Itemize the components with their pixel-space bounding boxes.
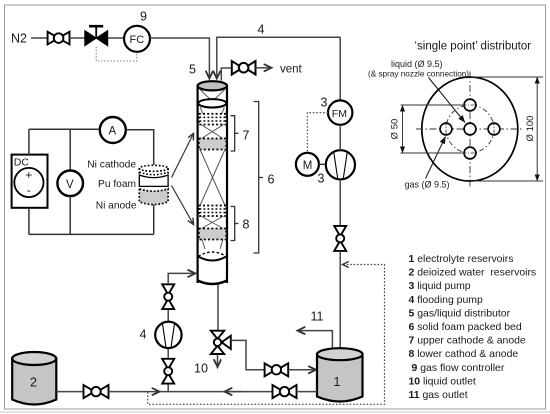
nozzle hole bottom: [464, 147, 476, 159]
nozzle hole top: [464, 99, 476, 111]
wire FC to column top (gas feed): [150, 38, 209, 79]
wire tank2 outlet: [56, 391, 83, 393]
svg-text:‘single point’ distributor: ‘single point’ distributor: [415, 40, 532, 52]
svg-text:gas (Ø 9.5): gas (Ø 9.5): [405, 179, 450, 189]
spray cone: [200, 89, 212, 100]
page edge shadow: [0, 411, 550, 413]
valve V1 (ball valve on N2 line): [48, 32, 70, 45]
svg-text:6: 6: [268, 173, 275, 187]
svg-text:M: M: [303, 160, 313, 172]
svg-text:4 flooding pump: 4 flooding pump: [409, 295, 483, 306]
svg-text:FM: FM: [332, 108, 347, 120]
centerline vertical (dash-dot): [469, 72, 471, 189]
svg-text:9 gas flow controller: 9 gas flow controller: [412, 363, 505, 374]
valve V7 (tank2 outlet): [84, 385, 109, 398]
bracket 8: [231, 207, 235, 241]
wire valve V1 to valve V2: [70, 37, 85, 39]
taper wires: [200, 107, 203, 114]
wire voltmeter riser: [69, 129, 71, 170]
cross wires: [201, 216, 223, 229]
DC power supply box: [12, 155, 48, 208]
svg-text:11 gas outlet: 11 gas outlet: [409, 390, 468, 401]
centerline horizontal (dash-dot): [416, 128, 522, 130]
wire M to pump: [319, 163, 326, 165]
Ni cathode band (dotted): [139, 165, 168, 171]
bracket 6: [254, 102, 259, 254]
instrument FC (gas flow controller): [124, 26, 150, 52]
svg-text:DC: DC: [14, 157, 30, 169]
wire DC top riser: [28, 129, 30, 154]
wire to vent with arrow: [256, 67, 272, 69]
dimension D50: [401, 105, 465, 153]
leader arrow gas: [426, 137, 446, 179]
instrument FM (flow meter): [328, 100, 352, 124]
svg-text:N2: N2: [11, 32, 27, 46]
wire 3-way valve to tank 1: [231, 340, 265, 369]
wire N2 to valve V1: [31, 37, 48, 39]
electrode band (upper cathode, dotted): [199, 114, 226, 125]
svg-text:8 lower cathod & anode: 8 lower cathod & anode: [409, 349, 519, 360]
svg-text:4: 4: [140, 328, 147, 342]
nozzle hole center (liquid): [464, 123, 476, 135]
valve V2 (needle control valve with handle): [85, 26, 108, 46]
valve V6 (tank1 inlet): [265, 363, 289, 376]
motor M: [296, 153, 319, 176]
svg-text:10 liquid outlet: 10 liquid outlet: [409, 376, 476, 387]
svg-text:A: A: [109, 126, 117, 138]
wire pump4 to column with arrow: [168, 273, 195, 284]
long cross wires (packed bed): [200, 150, 225, 206]
electrode band (lower anode, gray): [199, 229, 226, 240]
svg-text:7: 7: [243, 129, 250, 143]
svg-text:Ø 100: Ø 100: [525, 116, 536, 142]
svg-text:liquid (Ø 9.5): liquid (Ø 9.5): [391, 59, 443, 69]
svg-text:5 gas/liquid distributor: 5 gas/liquid distributor: [409, 308, 511, 319]
nozzle hole right: [488, 123, 500, 135]
taper wires: [202, 240, 205, 250]
svg-text:3: 3: [321, 96, 328, 110]
valve V5 (3-way valve, liquid outlet): [211, 331, 231, 354]
bolt circle (dash-dot): [446, 105, 494, 153]
bottom ellipse (liquid level): [198, 252, 226, 257]
svg-text:V: V: [66, 179, 74, 191]
svg-text:FC: FC: [130, 34, 145, 46]
wire line 4 (liquid feed) from right: [217, 37, 340, 78]
pump P4 (flooding pump): [155, 322, 181, 348]
wire bottom feed line with flow arrow: [109, 391, 160, 393]
svg-text:vent: vent: [280, 63, 303, 75]
wire top bus to ammeter: [29, 128, 100, 130]
svg-text:-: -: [27, 183, 31, 197]
svg-text:+: +: [25, 168, 32, 182]
voltmeter V: [57, 171, 83, 197]
svg-text:1: 1: [334, 375, 341, 389]
cross wires: [201, 125, 223, 139]
valve V8 (tank1 outlet): [273, 385, 297, 398]
svg-text:4: 4: [258, 23, 265, 37]
bracket 7: [231, 116, 235, 151]
column shell (packed bed column): [198, 86, 227, 284]
valve V9 (below pump 4): [162, 359, 174, 384]
svg-text:Ni anode: Ni anode: [96, 201, 137, 212]
svg-text:6 solid foam packed bed: 6 solid foam packed bed: [409, 322, 522, 333]
svg-text:Ø 50: Ø 50: [390, 119, 401, 140]
signal line valve V2 to FC (dotted): [96, 47, 137, 62]
gas outlet 11: [298, 331, 333, 349]
svg-text:Pu foam: Pu foam: [98, 179, 136, 190]
wire valve V2 to FC: [108, 37, 124, 39]
svg-text:Ni cathode: Ni cathode: [87, 160, 136, 171]
tank 1 (electrolyte): [317, 348, 363, 401]
nozzle hole left (gas): [440, 123, 452, 135]
distributor top ellipse (5): [198, 81, 227, 90]
arrow liquid outlet 10: [217, 354, 219, 367]
DC source circle: [14, 168, 43, 197]
valve V10 (above pump 4): [162, 284, 174, 309]
svg-text:(& spray nozzle connection): (& spray nozzle connection): [368, 69, 469, 78]
svg-text:7 upper cathode & anode: 7 upper cathode & anode: [409, 336, 526, 347]
valve V4 (vertical on pump3 line): [334, 226, 346, 251]
wire liquid feed riser (right): [339, 37, 341, 100]
wire column bottom outlet: [217, 285, 219, 331]
Ni anode band (gray dotted): [139, 189, 168, 205]
dimension D100: [472, 77, 544, 181]
svg-text:5: 5: [189, 63, 196, 77]
wire valve to tank 1: [339, 251, 341, 349]
wire vent branch: [221, 68, 232, 81]
wire voltmeter to bottom bus: [69, 196, 71, 234]
Pu foam band (solid): [139, 175, 168, 186]
arrow foam to upper electrodes: [172, 134, 194, 178]
leader arrow liquid: [429, 78, 466, 123]
svg-text:8: 8: [243, 218, 250, 232]
wire ammeter to cathode riser: [126, 130, 154, 165]
arrow foam to lower electrodes: [172, 186, 194, 225]
ellipse under distributor: [198, 99, 226, 107]
svg-text:2: 2: [30, 376, 37, 390]
wire DC bottom riser: [28, 208, 30, 235]
wire junction to tank1 with flow arrow: [160, 391, 273, 393]
electrode band (upper anode, gray): [199, 139, 226, 150]
svg-text:9: 9: [140, 10, 147, 24]
svg-text:2 deioized water reservoirs: 2 deioized water reservoirs: [409, 268, 537, 279]
svg-text:10: 10: [194, 362, 208, 376]
wire pump down to valve: [339, 179, 341, 226]
wire valve V8 to tank1: [297, 391, 318, 393]
column bottom cap: [198, 281, 227, 285]
foam electrode stack: [139, 165, 168, 204]
pump P3 (liquid pump): [326, 150, 355, 179]
signal line FM to motor (dotted): [307, 113, 328, 153]
svg-text:3 liquid pump: 3 liquid pump: [409, 281, 471, 292]
distributor plate circle: [422, 77, 518, 181]
svg-text:1 electrolyte reservoirs: 1 electrolyte reservoirs: [409, 254, 514, 265]
tank 2 (deionized water): [12, 352, 56, 405]
electrode band (lower cathode, dotted): [199, 206, 226, 217]
valve V3 (vent valve): [232, 61, 256, 75]
wire FM to pump: [339, 125, 341, 150]
svg-text:11: 11: [311, 310, 324, 324]
wire flooding pump branch: [167, 309, 169, 391]
wire into tank 1: [288, 369, 316, 371]
dotted gas recycle loop: [148, 265, 385, 405]
wire anode riser: [153, 204, 155, 234]
ammeter A: [100, 117, 126, 143]
svg-text:3: 3: [318, 172, 325, 186]
wire bottom bus: [29, 233, 154, 235]
